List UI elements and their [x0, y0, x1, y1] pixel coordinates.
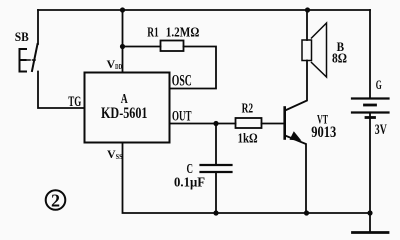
svg-text:TG: TG [68, 94, 81, 110]
svg-text:1.2MΩ: 1.2MΩ [166, 25, 200, 40]
svg-text:R1: R1 [147, 25, 159, 40]
svg-text:3V: 3V [375, 122, 387, 138]
svg-text:8Ω: 8Ω [332, 51, 347, 66]
svg-text:OUT: OUT [172, 108, 192, 124]
svg-text:0.1μF: 0.1μF [174, 175, 205, 190]
svg-text:9013: 9013 [311, 124, 336, 141]
svg-text:OSC: OSC [172, 73, 192, 90]
svg-text:2: 2 [51, 191, 60, 211]
svg-text:G: G [376, 77, 382, 92]
svg-text:SB: SB [15, 29, 29, 44]
svg-text:KD-5601: KD-5601 [101, 105, 148, 122]
svg-text:R2: R2 [242, 102, 254, 117]
svg-text:1kΩ: 1kΩ [238, 132, 258, 147]
